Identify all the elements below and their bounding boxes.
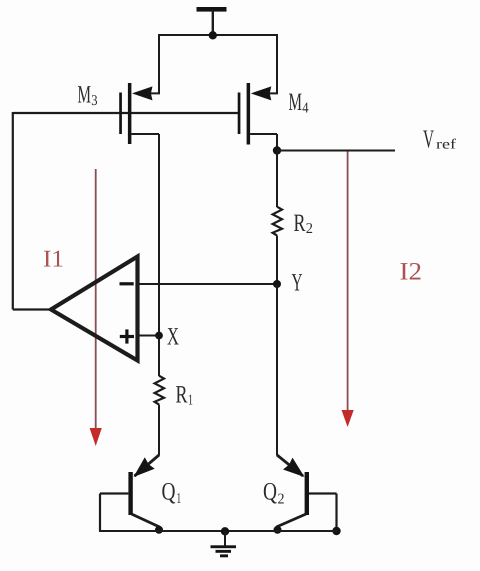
junction dot Q2 collector xyxy=(274,526,282,534)
junction dot Vref node xyxy=(273,146,281,154)
wire Y node down to Q2 emitter xyxy=(276,284,278,456)
junction dot node X xyxy=(155,332,163,340)
wire Vref xyxy=(277,150,395,152)
junction dot node Y xyxy=(273,280,281,288)
svg-text:I1: I1 xyxy=(43,247,64,273)
svg-text:M: M xyxy=(289,89,303,116)
ground xyxy=(211,531,237,557)
op-amp U1 xyxy=(51,257,138,361)
junction dot Q2 base tie xyxy=(332,527,340,535)
power supply bar xyxy=(197,7,227,12)
wire R2 top lead xyxy=(276,151,278,208)
svg-text:3: 3 xyxy=(91,93,97,109)
svg-text:V: V xyxy=(423,125,434,154)
svg-text:R: R xyxy=(294,210,306,237)
op-amp minus sign xyxy=(120,282,134,285)
wire supply stub xyxy=(212,10,214,36)
wire op-amp output xyxy=(13,308,51,310)
svg-text:Q: Q xyxy=(263,479,277,506)
wire R2 bottom lead xyxy=(276,236,278,285)
svg-text:X: X xyxy=(167,324,179,351)
wire M3 drain down through X to R1 xyxy=(158,134,160,376)
wire R1 to Q1 emitter xyxy=(158,405,160,456)
svg-text:Y: Y xyxy=(292,270,303,297)
transistor Q1 xyxy=(100,455,159,531)
transistor Q2 xyxy=(277,455,337,531)
svg-text:M: M xyxy=(78,82,92,109)
svg-text:2: 2 xyxy=(278,492,285,508)
junction dot supply node xyxy=(209,31,217,39)
wire feedback xyxy=(12,112,14,310)
op-amp plus sign xyxy=(120,335,134,338)
wire M4 drain down xyxy=(276,134,278,152)
svg-text:1: 1 xyxy=(177,491,182,507)
transistor M3 xyxy=(119,35,159,144)
wire Q1 base to rail xyxy=(99,494,101,532)
resistor R2 xyxy=(273,207,282,236)
transistor M4 xyxy=(238,35,277,145)
svg-text:I2: I2 xyxy=(400,259,423,286)
svg-text:Q: Q xyxy=(162,479,176,506)
wire top rail xyxy=(158,34,278,36)
svg-text:ref: ref xyxy=(436,138,456,153)
junction dot Q1 collector xyxy=(155,526,163,534)
svg-text:2: 2 xyxy=(306,221,313,237)
current arrow I2 xyxy=(342,151,354,428)
wire inverting input (node Y line) xyxy=(138,283,278,285)
wire noninverting input xyxy=(138,335,160,337)
resistor R1 xyxy=(155,376,164,405)
svg-text:4: 4 xyxy=(302,101,309,117)
svg-text:1: 1 xyxy=(188,393,193,409)
svg-text:R: R xyxy=(176,382,188,409)
current arrow I1 xyxy=(90,169,102,446)
wire Q2 base to rail xyxy=(335,494,337,532)
junction dot ground node xyxy=(221,527,229,535)
wire gate bus xyxy=(13,112,238,114)
wire ground rail xyxy=(99,530,337,532)
